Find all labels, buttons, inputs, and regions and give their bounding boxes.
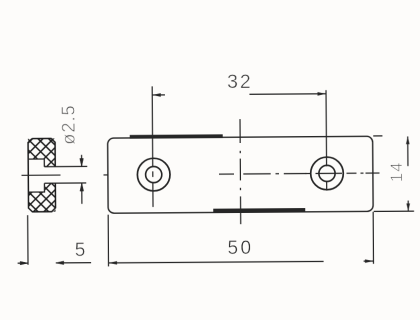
svg-text:ø2.5: ø2.5	[59, 104, 79, 145]
svg-text:14: 14	[388, 161, 406, 182]
svg-text:5: 5	[75, 240, 86, 261]
svg-text:32: 32	[227, 71, 252, 93]
svg-text:50: 50	[227, 238, 253, 259]
